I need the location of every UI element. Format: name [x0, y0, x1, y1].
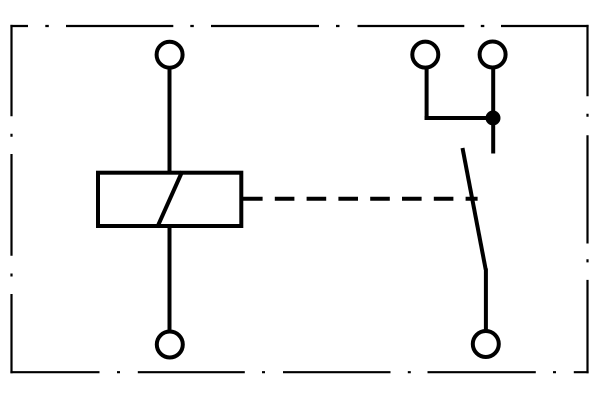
wire: terminal T3 down to corner	[425, 68, 429, 120]
wire: horizontal run to junction	[425, 116, 494, 120]
right edge	[586, 25, 588, 373]
bottom edge	[10, 371, 588, 373]
terminal T4 (contact, top right of pair)	[480, 42, 506, 68]
terminal T1 (coil top)	[157, 42, 183, 68]
left edge	[10, 25, 12, 373]
relay coil K1 (rectangle with diagonal)	[98, 172, 241, 228]
top edge	[10, 25, 588, 27]
switch blade (normally-open moving contact)	[463, 148, 486, 270]
mechanical link: coil to blade (dashed actuation line)	[243, 197, 478, 201]
wire: coil to terminal T2	[168, 226, 172, 332]
terminal T3 (contact, top left of pair)	[412, 42, 438, 68]
terminal T2 (coil bottom)	[157, 332, 183, 358]
junction node (solder dot)	[486, 111, 501, 126]
wire: terminal T4 through junction to fixed contact stub	[491, 68, 495, 154]
wire: terminal T1 to coil	[168, 68, 172, 174]
terminal T5 (common contact, bottom)	[473, 331, 499, 357]
wire: blade pivot to terminal T5	[484, 269, 488, 332]
